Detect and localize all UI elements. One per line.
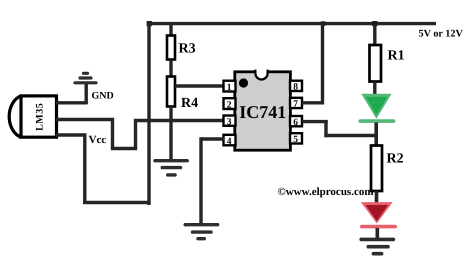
wire R1 to green LED [373,82,376,98]
wire rail to R3 [169,24,172,37]
wire step bottom [111,147,137,150]
wire top supply rail [148,22,437,25]
label R2 [387,152,404,167]
label R1 [388,49,405,64]
svg-text:GND: GND [92,91,114,102]
LM35 sensor body [9,96,56,137]
LED D2 red [361,202,395,227]
node supply left corner [147,21,152,26]
node supply pin7 junction [321,21,326,26]
label IC741 [239,102,286,122]
wire step up [134,119,137,150]
svg-text:7: 7 [293,100,298,110]
wire LM35 middle lead [56,118,114,121]
svg-text:5V or 12V: 5V or 12V [419,29,464,40]
wire pin 6 to LED node [302,120,377,137]
wire green LED to R2 [374,123,378,147]
wire step down [111,118,114,150]
svg-text:R2: R2 [387,152,404,167]
svg-text:5: 5 [293,135,298,145]
pin 6 [290,116,302,128]
wire R2 to red LED [375,191,379,205]
svg-text:8: 8 [293,83,298,93]
svg-text:6: 6 [293,118,298,128]
wire rail to R1 [373,24,376,46]
resistor R3 [167,36,175,60]
svg-text:1: 1 [227,83,232,93]
label R4 [181,96,198,111]
ground below pin 4 [185,225,218,239]
wire LM35 top lead [56,101,88,104]
pin 3 [224,116,236,128]
pin 2 [224,98,236,110]
ground below red LED [361,239,393,253]
resistor R2 [371,146,382,192]
label copyright www.elprocus.com [278,186,374,198]
svg-text:2: 2 [227,100,232,110]
label R3 [179,42,196,57]
svg-text:R3: R3 [179,42,196,57]
wire pin 7 to rail [302,22,324,105]
label Vcc [89,134,107,146]
svg-text:R1: R1 [388,49,405,64]
ground below R4 [155,161,187,175]
wire R3 to R4 [169,60,172,78]
wire left vertical from rail down [147,22,150,205]
pin 5 [290,133,302,145]
wire GND stem [84,84,87,104]
wire Vcc vertical [83,135,86,204]
pin 1 [224,81,236,93]
label GND [92,91,114,102]
pin 8 [290,81,302,93]
wire red LED to ground [375,228,379,239]
wire R4 to ground [169,107,172,161]
svg-text:Vcc: Vcc [89,134,107,146]
svg-text:R4: R4 [181,96,198,111]
wire bottom horizontal [83,201,151,204]
pin 4 [224,135,236,147]
svg-text:3: 3 [227,117,232,127]
node supply R1 junction [372,21,377,26]
ground GND symbol [75,73,96,83]
wire to pin 3 [134,119,224,122]
resistor R4 [167,77,175,107]
label LM35 [34,103,45,131]
wire R4 to pin 1 [175,84,224,87]
svg-text:IC741: IC741 [239,102,286,122]
op-amp U1 IC741 body [235,70,291,151]
LED D1 green [360,94,393,121]
svg-text:LM35: LM35 [34,103,45,131]
resistor R1 [370,45,382,82]
wire LM35 bottom lead [56,133,87,136]
pin 7 [290,98,302,110]
svg-text:©www.elprocus.com: ©www.elprocus.com [278,186,374,198]
svg-text:4: 4 [227,137,232,147]
wire pin 4 to ground [201,137,224,224]
label 5V or 12V [419,29,464,40]
